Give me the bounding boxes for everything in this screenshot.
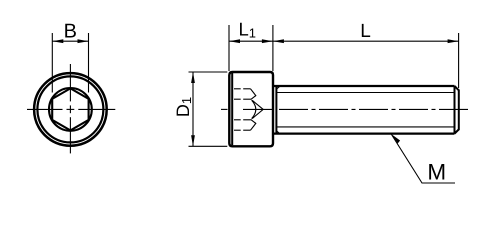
L1 dimension line: [229, 40, 273, 42]
socket chamfer circle: [49, 88, 92, 131]
L dimension line: [273, 40, 459, 42]
D1 arrow bottom: [191, 135, 195, 146]
thread runout tick top: [276, 86, 279, 89]
end face vertical: [458, 90, 460, 131]
end chamfer top diagonal: [455, 86, 459, 90]
socket drill point chevron: [252, 100, 263, 118]
thread start vertical line: [275, 87, 277, 133]
shaft top edge: [273, 85, 455, 87]
L1 extension line left: [228, 25, 230, 71]
horizontal centerline (dash-dot): [27, 108, 115, 110]
svg-text:L: L: [360, 21, 371, 42]
D1 arrow top: [191, 72, 195, 83]
L1 arrow right: [262, 39, 273, 43]
L1 arrow left: [229, 39, 240, 43]
head chamfer line (left face): [231, 73, 233, 145]
head outline (side view): [229, 72, 273, 146]
D1 extension line top: [189, 71, 228, 73]
shaft bottom edge: [273, 132, 455, 134]
D1 extension line bottom: [189, 145, 228, 147]
chamfer circle (head top edge): [37, 76, 103, 142]
B extension line right: [88, 33, 90, 93]
socket hidden line upper inner (dashed): [234, 98, 241, 100]
L arrow left: [273, 39, 284, 43]
B dimension line: [52, 40, 88, 42]
L arrow right: [448, 39, 459, 43]
svg-text:M: M: [427, 160, 446, 185]
end chamfer bottom diagonal: [455, 129, 459, 133]
M leader arrowhead: [391, 134, 400, 144]
shaft centerline (dash-dot): [221, 108, 468, 110]
socket hidden line bottom flat (dashed): [234, 129, 241, 131]
thread minor diameter top line: [277, 92, 455, 94]
M leader line: [391, 134, 455, 183]
thread runout tick bottom: [276, 131, 279, 134]
hexagon socket: [52, 88, 88, 130]
socket corner edge top: [251, 89, 256, 99]
outer circle (head outside diameter): [34, 73, 107, 146]
B dimension arrow right: [78, 39, 89, 43]
label D1 (rotated): [173, 97, 194, 117]
L extension line right: [458, 33, 460, 88]
L1 / L shared extension line: [272, 25, 274, 71]
D1 dimension line: [192, 72, 194, 146]
B dimension arrow left: [52, 39, 63, 43]
socket cone arc: [252, 100, 256, 118]
socket corner edge bottom: [251, 120, 256, 130]
B extension line left: [51, 33, 53, 93]
thread minor diameter bottom line: [277, 126, 455, 128]
socket hidden line lower inner (dashed): [234, 119, 241, 121]
chamfer start vertical at shaft end: [454, 86, 456, 134]
vertical centerline (dash-dot): [69, 64, 71, 153]
socket hidden line top flat (dashed): [234, 88, 241, 90]
svg-text:B: B: [64, 20, 77, 42]
